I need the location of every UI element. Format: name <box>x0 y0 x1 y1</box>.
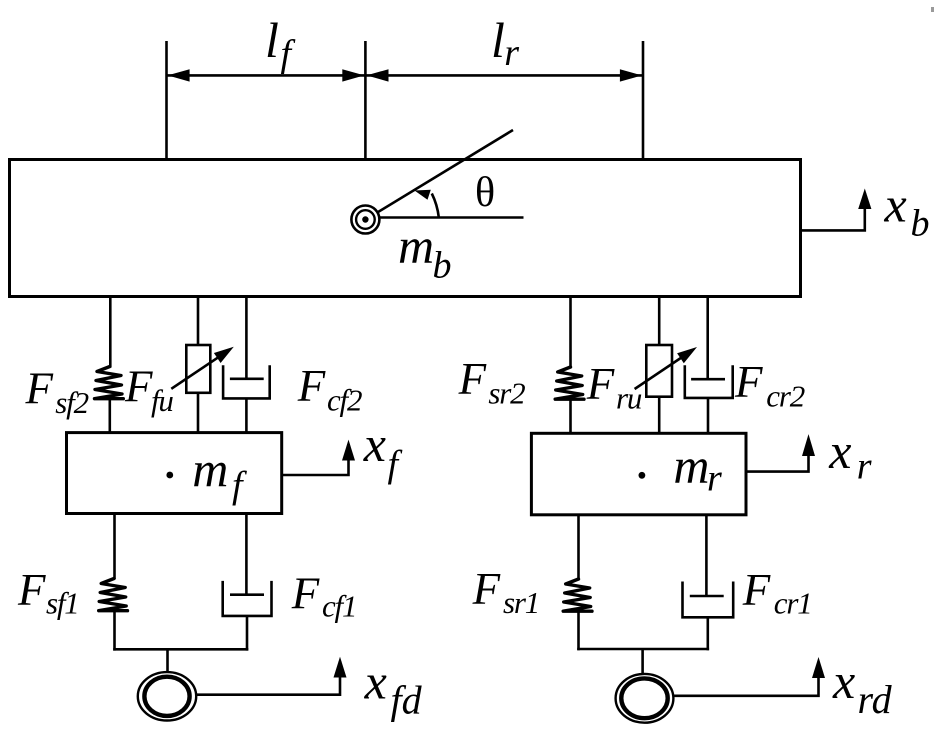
arrowhead actuator Fru <box>677 347 697 363</box>
actuator Ffu rectangle <box>186 345 210 393</box>
wire mass mr to damper Fcr1 <box>705 515 708 596</box>
svg-text:sr2: sr2 <box>488 376 525 411</box>
dimension extension line center <box>364 41 367 238</box>
wire damper Fcf1 down <box>246 616 249 651</box>
damper Fcr1 cup <box>683 582 734 618</box>
front wheel outer <box>138 672 196 720</box>
damper Fcf1 piston <box>230 593 264 596</box>
wire actuator Ffu to mass mf <box>197 393 200 433</box>
pivot circle outer <box>351 206 379 234</box>
wire front wheel connector <box>113 648 248 651</box>
wire spring Fsr1 down <box>577 612 580 651</box>
svg-text:rd: rd <box>858 677 893 722</box>
arrow xb <box>801 193 865 230</box>
damper Fcf2 cup <box>223 365 270 398</box>
spring Fsf1 <box>99 579 128 611</box>
arrow xf <box>282 444 349 475</box>
pivot reference horizontal line <box>366 216 524 219</box>
arrowhead lr right <box>620 69 642 81</box>
spring Fsf2 <box>95 367 124 399</box>
pivot inclined line <box>374 130 513 215</box>
arrow xrd <box>673 663 818 696</box>
arrowhead xrd <box>812 657 825 678</box>
svg-text:cr2: cr2 <box>766 378 804 413</box>
svg-text:cr1: cr1 <box>774 586 812 621</box>
damper Fcf1 cup <box>223 581 272 616</box>
svg-text:F: F <box>458 354 487 404</box>
mass mr rectangle <box>531 433 746 515</box>
arrowhead xfd <box>334 657 347 678</box>
svg-text:fu: fu <box>151 383 173 418</box>
wire spring Fsf2 to mass mf <box>109 399 112 433</box>
wire connector to front wheel <box>166 649 169 672</box>
svg-text:F: F <box>17 565 46 615</box>
angle arc theta <box>432 194 439 218</box>
svg-text:sr1: sr1 <box>503 585 539 620</box>
body mass rectangle mb <box>10 160 801 297</box>
dimension line lf <box>167 74 365 77</box>
wire mass mr to spring Fsr1 <box>577 515 580 580</box>
svg-text:F: F <box>586 359 615 409</box>
svg-text:x: x <box>828 423 851 479</box>
mass mr center dot <box>639 472 646 479</box>
arrow xr <box>746 441 809 472</box>
damper Fcr2 cup <box>685 365 733 398</box>
spring Fsr1 <box>563 579 592 611</box>
dimension extension line left <box>165 41 168 295</box>
wire body to actuator Fru <box>658 297 661 346</box>
wire rear wheel connector <box>577 648 709 651</box>
svg-text:r: r <box>504 32 519 74</box>
wire body to spring Fsr2 <box>569 297 572 368</box>
wire damper Fcr1 down <box>706 617 709 650</box>
arrow xfd <box>196 661 340 695</box>
svg-text:l: l <box>265 12 279 68</box>
mass mf rectangle <box>67 433 282 514</box>
dimension extension line right <box>642 41 645 295</box>
wire body to damper Fcf2 <box>245 297 248 379</box>
front wheel inner <box>144 677 189 716</box>
arrowhead lr left <box>367 69 389 81</box>
damper Fcr2 piston <box>691 378 725 381</box>
actuator Fru rectangle <box>646 345 672 397</box>
svg-text:r: r <box>857 445 872 487</box>
svg-text:r: r <box>707 458 722 500</box>
damper Fcr1 piston <box>690 595 724 598</box>
svg-text:ru: ru <box>616 381 642 416</box>
actuator Ffu arrow shaft <box>171 355 222 389</box>
svg-text:θ: θ <box>475 170 495 216</box>
svg-text:F: F <box>25 364 54 414</box>
wire spring Fsr2 to mass mr <box>569 400 572 434</box>
wire actuator Fru to mass mr <box>658 397 661 434</box>
actuator Fru arrow shaft <box>635 355 686 389</box>
svg-text:l: l <box>491 12 505 68</box>
arrowhead arc theta <box>415 190 431 200</box>
pivot circle inner <box>356 210 375 229</box>
wire connector to rear wheel <box>641 649 644 674</box>
svg-text:F: F <box>742 565 771 615</box>
svg-text:F: F <box>472 564 501 614</box>
damper Fcf2 piston <box>230 377 264 380</box>
stray scanner mark top right <box>931 7 934 12</box>
svg-text:sf1: sf1 <box>46 586 79 621</box>
wire body to damper Fcr2 <box>706 297 709 380</box>
svg-text:m: m <box>192 441 228 497</box>
svg-text:x: x <box>832 653 855 709</box>
wire body to actuator Ffu <box>197 297 200 346</box>
svg-text:fd: fd <box>391 678 423 723</box>
svg-text:b: b <box>433 244 452 286</box>
arrowhead actuator Ffu <box>214 347 234 363</box>
svg-text:cf1: cf1 <box>322 589 356 624</box>
wire body to spring Fsf2 <box>109 297 112 368</box>
svg-text:F: F <box>734 357 763 407</box>
dimension line lr <box>366 74 643 77</box>
rear wheel outer <box>616 674 674 723</box>
mass mf center dot <box>166 472 173 479</box>
wire spring Fsf1 down <box>113 611 116 651</box>
svg-text:sf2: sf2 <box>55 385 88 420</box>
svg-text:F: F <box>297 361 326 411</box>
wire damper Fcr2 to mass mr <box>707 398 710 433</box>
svg-text:m: m <box>673 438 709 494</box>
wire mass mf to spring Fsf1 <box>113 514 116 580</box>
pivot center dot <box>362 216 368 222</box>
svg-text:F: F <box>291 569 320 619</box>
wire damper Fcf2 to mass mf <box>245 398 248 433</box>
svg-text:x: x <box>363 416 386 472</box>
arrowhead xb <box>858 189 871 210</box>
arrowhead lf right <box>342 69 364 81</box>
svg-text:x: x <box>884 177 907 233</box>
svg-text:x: x <box>364 654 387 710</box>
arrowhead xr <box>802 434 815 456</box>
svg-text:m: m <box>398 218 434 274</box>
svg-text:F: F <box>124 362 153 412</box>
rear wheel inner <box>621 678 667 718</box>
svg-text:cf2: cf2 <box>327 383 362 418</box>
wire mass mf to damper Fcf1 <box>245 514 248 595</box>
spring Fsr2 <box>555 367 584 399</box>
arrowhead lf left <box>168 69 190 81</box>
arrowhead xf <box>342 440 355 461</box>
svg-text:b: b <box>911 203 930 245</box>
